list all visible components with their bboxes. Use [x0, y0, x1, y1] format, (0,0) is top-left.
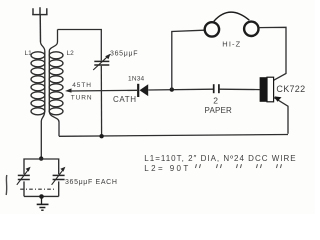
- headphones HI-Z: [205, 12, 259, 36]
- svg-text:365μμF: 365μμF: [110, 50, 138, 57]
- ganged tuning capacitor box: [20, 159, 59, 196]
- tap wire to diode: [69, 89, 137, 92]
- svg-text:L2: L2: [67, 50, 75, 57]
- node dot L1 to tuning box: [39, 156, 43, 160]
- svg-text:CK722: CK722: [276, 84, 305, 94]
- coil L1: [31, 51, 45, 115]
- variable capacitor C1b: [53, 175, 65, 179]
- top rail wire: [58, 30, 102, 61]
- coil L2: [49, 51, 63, 115]
- wire antenna to L1: [41, 42, 45, 51]
- paper capacitor: [214, 84, 219, 93]
- wire paper cap to base: [219, 88, 260, 90]
- wire junction up to headphone left: [172, 30, 205, 89]
- wire cap down to bottom rail: [100, 66, 102, 137]
- node dot cap-wire to rail: [99, 134, 103, 138]
- tap arrow on L2 45th turn: [65, 88, 72, 92]
- wire diode to junction to paper cap: [148, 88, 213, 91]
- svg-text:1N34: 1N34: [128, 76, 145, 83]
- variable capacitor C1a: [18, 175, 30, 179]
- diode 1N34: [138, 84, 148, 97]
- svg-text:L2= 90T: L2= 90T: [144, 164, 190, 173]
- stray ink mark: [5, 175, 8, 195]
- wire headphone right to collector: [258, 27, 286, 80]
- node dot box bottom to ground: [39, 194, 44, 199]
- svg-text:L1: L1: [25, 50, 33, 57]
- ground: [37, 197, 49, 211]
- L2 bottom wire: [50, 112, 60, 136]
- variable capacitor 365uuF plates: [94, 61, 109, 65]
- L2 top wire to top rail: [49, 30, 57, 52]
- svg-text:365μμF EACH: 365μμF EACH: [65, 179, 118, 186]
- svg-text:L1=110T, 2″ DIA, Nº24 DCC WIRE: L1=110T, 2″ DIA, Nº24 DCC WIRE: [144, 154, 296, 163]
- variable capacitor arrow: [93, 55, 109, 70]
- svg-text:45TH: 45TH: [72, 82, 92, 89]
- svg-text:HI-Z: HI-Z: [222, 40, 241, 49]
- svg-text:CATH: CATH: [113, 95, 137, 104]
- svg-text:PAPER: PAPER: [205, 106, 233, 115]
- svg-text:2: 2: [213, 95, 218, 105]
- L1 bottom wire: [41, 112, 44, 159]
- transistor CK722: [260, 77, 288, 134]
- antenna: [32, 7, 47, 42]
- bottom rail wire: [59, 135, 288, 137]
- node junction dot: [170, 87, 174, 91]
- svg-text:TURN: TURN: [71, 94, 93, 101]
